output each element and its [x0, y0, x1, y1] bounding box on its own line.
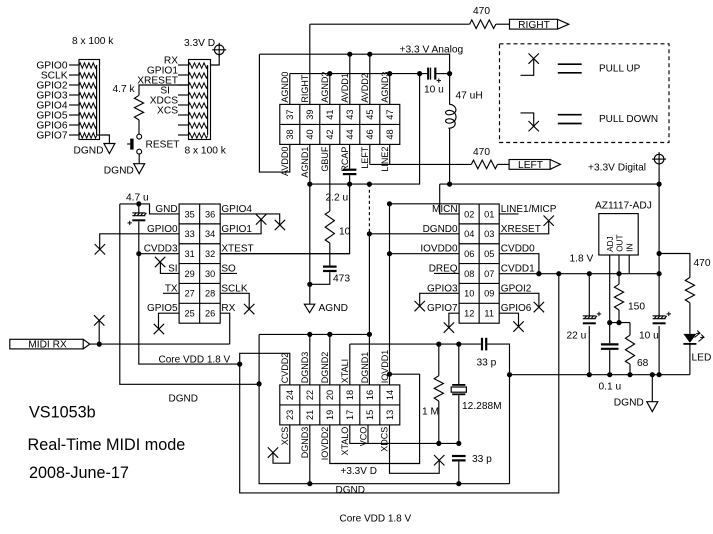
- junction DGND3 bottom: [307, 481, 312, 486]
- resistor 4.7k: [134, 95, 143, 120]
- svg-text:DGND3: DGND3: [300, 352, 310, 384]
- wire AGND1 down: [309, 144, 311, 304]
- wire GPIO1 stub: [220, 219, 261, 233]
- svg-text:+3.3 V Analog: +3.3 V Analog: [400, 45, 464, 56]
- wire DGND3 pin22: [309, 334, 311, 385]
- resistor 470 LED: [685, 277, 694, 303]
- wire DREQ stub: [434, 272, 459, 274]
- wire 470 to LEFT tag: [498, 163, 510, 165]
- junction AGND node: [307, 282, 312, 287]
- svg-text:33 p: 33 p: [477, 357, 497, 368]
- svg-text:LED: LED: [692, 353, 712, 364]
- junction CVDD1 left: [536, 271, 541, 276]
- svg-text:DGND: DGND: [104, 166, 134, 177]
- net 3.3VD vertical: [658, 166, 660, 316]
- svg-text:VS1053b: VS1053b: [29, 404, 96, 422]
- svg-text:AZ1117-ADJ: AZ1117-ADJ: [595, 200, 652, 211]
- wire 4.7u cap stub: [138, 204, 140, 213]
- wire CVDD3 pin: [139, 253, 179, 255]
- RN2 pin 4 lead: [178, 94, 189, 96]
- RN2 pin 1 lead: [178, 64, 189, 66]
- svg-text:DREQ: DREQ: [429, 263, 458, 274]
- svg-text:GPIO7: GPIO7: [36, 130, 67, 141]
- wire DGND stub: [651, 375, 653, 402]
- svg-text:LINE2: LINE2: [380, 147, 390, 172]
- wire 470 to LED: [689, 303, 691, 334]
- wire AGND3 up: [389, 74, 391, 105]
- RN1 pin 2 lead: [69, 74, 79, 76]
- svg-text:1.8 V: 1.8 V: [570, 253, 594, 264]
- svg-text:08: 08: [464, 269, 474, 279]
- wire LINE2 down: [389, 144, 391, 164]
- wire GPIO3 stub: [420, 293, 459, 306]
- svg-text:25: 25: [184, 309, 194, 319]
- wire XTEST: [220, 253, 349, 255]
- no-connect X GPIO0: [95, 244, 105, 254]
- IC U1 middle-left block pins 25-36: [179, 204, 220, 323]
- RN2 element 1: [189, 63, 208, 68]
- svg-text:33: 33: [184, 229, 194, 239]
- junction 33p DGND: [456, 481, 461, 486]
- capacitor 473: [323, 267, 337, 271]
- junction DGND right mid: [507, 372, 512, 377]
- svg-text:07: 07: [484, 269, 494, 279]
- wire 33p to DGND right: [487, 344, 509, 484]
- wire 470 to RIGHT tag: [496, 23, 510, 25]
- pull-down X GPIO6: [513, 321, 523, 331]
- svg-text:02: 02: [464, 209, 474, 219]
- resistor 470 left channel: [471, 160, 497, 169]
- svg-text:27: 27: [184, 289, 194, 299]
- net DGND left rail: [120, 204, 259, 384]
- junction inductor out: [447, 182, 452, 187]
- svg-text:AGND0: AGND0: [280, 72, 290, 103]
- ground DGND under RESET: [134, 164, 145, 174]
- svg-text:CVDD1: CVDD1: [501, 263, 535, 274]
- svg-text:CVDD2: CVDD2: [280, 353, 290, 384]
- svg-text:SO: SO: [221, 263, 236, 274]
- svg-text:DGND: DGND: [614, 397, 644, 408]
- svg-text:GPOI2: GPOI2: [501, 283, 532, 294]
- svg-text:DGND2: DGND2: [320, 352, 330, 384]
- pull-up X XRESET: [544, 216, 554, 226]
- resistor 10 GBUF: [325, 211, 334, 243]
- svg-text:PULL UP: PULL UP: [599, 63, 641, 74]
- svg-text:20: 20: [325, 390, 335, 400]
- wire XDCS pullup: [390, 425, 440, 473]
- svg-text:1 M: 1 M: [422, 407, 439, 418]
- svg-text:4.7 k: 4.7 k: [113, 84, 136, 95]
- wire LINE1/MICP stub: [499, 213, 518, 215]
- svg-text:LEFT: LEFT: [360, 146, 370, 169]
- RN1 element 3: [79, 83, 97, 88]
- junction MIDI RX: [97, 342, 102, 347]
- wire OUT pin: [618, 255, 620, 274]
- svg-text:34: 34: [205, 229, 215, 239]
- wire IOVDD0: [390, 253, 460, 255]
- svg-text:41: 41: [325, 109, 335, 119]
- svg-text:Core VDD 1.8 V: Core VDD 1.8 V: [340, 513, 412, 524]
- svg-text:0.1 u: 0.1 u: [599, 381, 622, 392]
- dashed AGND-DGND tie: [368, 184, 370, 231]
- svg-text:46: 46: [365, 129, 375, 139]
- pull-down X GPIO3: [415, 301, 425, 311]
- wire 22u top: [588, 274, 590, 316]
- junction 22u top: [587, 271, 592, 276]
- net +3.3V Analog rail: [259, 54, 449, 73]
- net AGND top bus: [290, 73, 428, 75]
- junction IOVDD1: [387, 372, 392, 377]
- svg-text:MICN: MICN: [432, 204, 458, 215]
- wire CVDD2 jog: [240, 353, 290, 385]
- net tag LEFT: [509, 160, 560, 170]
- pull-up X MIDI RX: [94, 315, 104, 325]
- svg-text:GND: GND: [155, 204, 177, 215]
- svg-text:SI: SI: [168, 263, 177, 274]
- svg-text:GPIO7: GPIO7: [427, 303, 458, 314]
- svg-text:CVDD0: CVDD0: [501, 244, 535, 255]
- wire GPIO7 stub: [449, 313, 459, 327]
- pull-down X GPOI2: [534, 302, 544, 312]
- svg-text:Real-Time MIDI mode: Real-Time MIDI mode: [28, 436, 186, 454]
- svg-text:28: 28: [205, 289, 215, 299]
- svg-text:68: 68: [637, 358, 649, 369]
- junction CVDD3: [136, 251, 141, 256]
- power +3.3V Digital symbol: [652, 152, 666, 166]
- wire ADJ junction bar: [610, 322, 630, 324]
- svg-text:MIDI RX: MIDI RX: [28, 340, 67, 351]
- svg-text:04: 04: [464, 229, 474, 239]
- wire RCAP down: [349, 144, 351, 168]
- junction ADJ node: [607, 320, 612, 325]
- svg-text:470: 470: [473, 147, 490, 158]
- capacitor 4.7u: [128, 213, 147, 225]
- capacitor 22u: [583, 312, 601, 324]
- RN2 element 8: [189, 133, 208, 138]
- wire DGND3 pin21: [309, 425, 311, 484]
- net RIGHT line: [310, 23, 470, 25]
- junction AVDD2 rail: [367, 52, 372, 57]
- junction 22u bottom: [587, 372, 592, 377]
- capacitor 10u digital: [653, 312, 671, 324]
- junction 4.7u top: [136, 201, 141, 206]
- junction 2.2u AGND: [347, 182, 352, 187]
- pull-up X GPIO1: [256, 214, 266, 224]
- svg-text:01: 01: [484, 209, 494, 219]
- IC U1 bottom block pins 13-24: [280, 385, 400, 425]
- wire rail to 150: [618, 274, 620, 285]
- legend dashed box: [500, 44, 670, 143]
- legend pull-down X: [529, 121, 539, 131]
- legend equals pull-down: [558, 115, 582, 124]
- capacitor 2.2u: [343, 170, 357, 174]
- wire XTALO pin17: [350, 425, 459, 444]
- RN1 pin 7 lead: [69, 124, 79, 126]
- wire crystal bottom: [458, 394, 460, 443]
- svg-text:IOVDD2: IOVDD2: [320, 427, 330, 461]
- wire 33p bottom to DGND: [458, 462, 460, 484]
- wire XTALI pin18: [349, 344, 351, 385]
- svg-text:XTEST: XTEST: [221, 244, 253, 255]
- junction LED branch: [657, 251, 662, 256]
- RN2 element 5: [189, 103, 208, 108]
- svg-text:11: 11: [484, 309, 494, 319]
- wire 150 to ADJ node: [618, 310, 620, 323]
- resistor network RN1 8x100k box: [79, 60, 100, 140]
- junction AGND3: [387, 71, 392, 76]
- svg-text:32: 32: [205, 249, 215, 259]
- wire AVDD0 loop: [259, 54, 289, 172]
- wire 473 to AGND: [310, 272, 330, 284]
- svg-text:+3.3V Digital: +3.3V Digital: [588, 163, 646, 174]
- wire RIGHT pin up: [309, 24, 311, 104]
- svg-text:15: 15: [365, 410, 375, 420]
- svg-text:47: 47: [385, 109, 395, 119]
- svg-text:DGND: DGND: [169, 393, 198, 404]
- junction DGND rail corner: [257, 381, 262, 386]
- svg-text:14: 14: [385, 390, 395, 400]
- svg-text:GBUF: GBUF: [320, 146, 330, 172]
- svg-text:DGND0: DGND0: [423, 224, 458, 235]
- svg-text:CVDD3: CVDD3: [144, 244, 178, 255]
- junction 1M bottom: [436, 441, 441, 446]
- net XTALI line: [350, 343, 481, 345]
- junction IOVDD0: [387, 251, 392, 256]
- wire 1M top: [438, 344, 440, 376]
- junction 10u bottom: [657, 372, 662, 377]
- svg-text:10: 10: [339, 227, 351, 238]
- junction OUT: [616, 271, 621, 276]
- svg-text:43: 43: [345, 109, 355, 119]
- RN2 element 2: [189, 73, 208, 78]
- wire AGND0 up: [289, 74, 291, 105]
- capacitor 33p top: [482, 338, 486, 351]
- svg-text:30: 30: [205, 269, 215, 279]
- svg-text:19: 19: [325, 410, 335, 420]
- junction 3.3VD rail: [657, 182, 662, 187]
- svg-text:8 x 100 k: 8 x 100 k: [185, 146, 227, 157]
- svg-text:29: 29: [184, 269, 194, 279]
- RN1 pin 3 lead: [69, 84, 79, 86]
- junction DGND3 top: [307, 332, 312, 337]
- net +3.3V D feed: [440, 183, 659, 185]
- svg-text:AGND3: AGND3: [380, 72, 390, 103]
- svg-text:36: 36: [205, 209, 215, 219]
- inductor 47uH: [446, 74, 456, 185]
- resistor 68: [625, 335, 634, 364]
- ground DGND under RN1: [104, 144, 115, 154]
- net IOVDD vertical: [389, 204, 391, 374]
- wire RX pin: [220, 313, 230, 344]
- junction 150/68: [616, 320, 621, 325]
- RN1 pin 8 lead: [69, 134, 79, 136]
- junction Core VDD branch: [237, 362, 242, 367]
- pull-up X XCS: [268, 447, 278, 457]
- ground AGND symbol: [304, 304, 315, 313]
- wire switch to DGND: [138, 154, 140, 164]
- capacitor 33p bottom: [452, 456, 466, 460]
- wire SI stub: [160, 262, 179, 273]
- wire LEFT pin down: [369, 144, 371, 164]
- junction 68 bottom: [627, 372, 632, 377]
- RN2 element 3: [189, 83, 208, 88]
- svg-text:42: 42: [325, 129, 335, 139]
- RN1 pin 5 lead: [69, 104, 79, 106]
- wire LED branch top: [659, 254, 690, 278]
- junction DGND2 top: [327, 332, 332, 337]
- junction AVDD1 rail: [347, 52, 352, 57]
- svg-text:RCAP: RCAP: [340, 147, 350, 172]
- resistor 470 right channel: [470, 20, 496, 29]
- svg-text:22: 22: [305, 390, 315, 400]
- svg-text:8 x 100 k: 8 x 100 k: [72, 36, 114, 47]
- wire AGND2 up: [329, 74, 331, 105]
- wire 10 to 473: [329, 243, 331, 266]
- svg-text:10 u: 10 u: [639, 330, 659, 341]
- net CVDD3 vertical: [139, 222, 240, 365]
- RN1 element 5: [79, 103, 97, 108]
- net DGND line above chip4: [259, 333, 369, 335]
- wire LED to DGND rail: [689, 344, 691, 375]
- capacitor 10u analog: [428, 68, 441, 83]
- wire GPIO0 pulldown: [100, 234, 179, 250]
- svg-text:GPIO6: GPIO6: [501, 303, 532, 314]
- svg-text:AGND2: AGND2: [320, 72, 330, 103]
- svg-text:40: 40: [305, 129, 315, 139]
- wire RN1 to DGND: [100, 135, 110, 144]
- net DGND vertical mid: [259, 334, 509, 483]
- svg-text:GPIO1: GPIO1: [221, 224, 252, 235]
- wire 68 top: [629, 323, 631, 336]
- wire ADJ pin: [609, 255, 611, 323]
- net LEFT line: [370, 163, 472, 165]
- svg-text:+3.3V D: +3.3V D: [341, 466, 377, 477]
- svg-text:IN: IN: [626, 244, 635, 252]
- wire MICN: [440, 184, 459, 214]
- junction DGND0 tie: [367, 231, 372, 236]
- junction DGND1 top: [367, 332, 372, 337]
- wire 4.7k to switch: [138, 120, 140, 134]
- legend pull-up symbol wire: [521, 59, 534, 76]
- svg-text:35: 35: [184, 209, 194, 219]
- wire 10u to DGND: [658, 326, 660, 375]
- svg-text:DGND1: DGND1: [360, 352, 370, 384]
- svg-text:37: 37: [285, 109, 295, 119]
- svg-text:16: 16: [365, 390, 375, 400]
- junction XTAL top: [456, 342, 461, 347]
- RN1 element 4: [79, 93, 97, 98]
- power 3.3V D symbol: [212, 43, 226, 57]
- capacitor 0.1u: [601, 344, 619, 348]
- svg-text:GPIO3: GPIO3: [427, 283, 458, 294]
- svg-text:12.288M: 12.288M: [462, 401, 502, 412]
- svg-text:03: 03: [484, 229, 494, 239]
- RN2 pin 8 lead: [178, 134, 189, 136]
- svg-text:RX: RX: [221, 303, 235, 314]
- svg-text:OUT: OUT: [616, 235, 625, 252]
- net Core VDD bottom loop: [240, 274, 559, 493]
- svg-text:AGND: AGND: [319, 303, 348, 314]
- wire DGND0: [369, 233, 459, 235]
- svg-text:AVDD1: AVDD1: [340, 73, 350, 102]
- svg-text:RESET: RESET: [146, 140, 180, 151]
- resistor network RN2 common bus: [207, 65, 209, 135]
- wire SO stub: [220, 272, 237, 274]
- svg-text:XCS: XCS: [157, 105, 178, 116]
- RN1 pin 1 lead: [69, 64, 79, 66]
- svg-text:45: 45: [365, 109, 375, 119]
- svg-text:38: 38: [285, 129, 295, 139]
- pull-up X SI: [155, 257, 165, 267]
- junction cap to rail: [447, 71, 452, 76]
- svg-text:18: 18: [345, 390, 355, 400]
- svg-text:2.2 u: 2.2 u: [326, 193, 349, 204]
- svg-text:DGND: DGND: [336, 485, 365, 496]
- wire GPIO4 stub: [220, 214, 280, 225]
- wire GND pin: [120, 204, 179, 214]
- wire VCO pin15: [367, 425, 369, 444]
- wire crystal top: [458, 344, 460, 385]
- wire IOVDD2 loop: [330, 374, 420, 463]
- wire IOVDD top link: [390, 203, 460, 205]
- pushbutton RESET: [127, 134, 141, 154]
- wire XRESET stub: [499, 221, 549, 234]
- net DGND rail right: [510, 374, 690, 376]
- junction DGND stub: [650, 372, 655, 377]
- wire DGND tie solid: [368, 232, 370, 335]
- svg-text:XTALO: XTALO: [340, 427, 350, 456]
- RN1 pin 4 lead: [69, 94, 79, 96]
- legend pull-up X: [529, 53, 539, 63]
- wire IOVDD1 pin14: [389, 374, 391, 385]
- svg-text:47 uH: 47 uH: [456, 91, 483, 102]
- wire RN2 common to 3.3V D: [211, 55, 220, 65]
- svg-text:09: 09: [484, 289, 494, 299]
- net tag RIGHT: [510, 19, 569, 29]
- junction 0.1u bottom: [607, 372, 612, 377]
- wire 22u bottom: [588, 326, 590, 375]
- wire GPOI2 stub: [499, 293, 539, 307]
- svg-text:4.7 u: 4.7 u: [126, 193, 149, 204]
- wire GBUF down: [329, 144, 331, 211]
- LED D1: [683, 331, 704, 344]
- RN2 pin 6 lead: [178, 114, 189, 116]
- svg-text:IOVDD1: IOVDD1: [380, 350, 390, 384]
- svg-text:PULL DOWN: PULL DOWN: [599, 114, 658, 125]
- wire XCS pulldown: [273, 425, 290, 463]
- RN1 element 7: [79, 123, 97, 128]
- svg-text:21: 21: [305, 410, 315, 420]
- wire 2.2u to XTEST: [220, 175, 349, 253]
- svg-text:LINE1/MICP: LINE1/MICP: [501, 204, 557, 215]
- wire 68 bottom: [629, 364, 631, 375]
- wire AVDD1 up: [349, 54, 351, 104]
- svg-text:473: 473: [333, 274, 350, 285]
- svg-text:3.3V D: 3.3V D: [184, 38, 215, 49]
- pull-up X XDCS: [434, 455, 444, 465]
- svg-text:10: 10: [464, 289, 474, 299]
- svg-text:GPIO5: GPIO5: [147, 303, 178, 314]
- pull-down X GPIO4: [275, 220, 285, 230]
- net AGND mid bus: [310, 74, 420, 185]
- junction 1.8V rail left: [556, 271, 561, 276]
- wire 10u to 3.3VA: [435, 73, 449, 75]
- svg-text:05: 05: [484, 249, 494, 259]
- junction IOVDD top: [387, 201, 392, 206]
- svg-text:SCLK: SCLK: [221, 283, 247, 294]
- svg-text:470: 470: [473, 6, 490, 17]
- resistor 150: [614, 284, 623, 310]
